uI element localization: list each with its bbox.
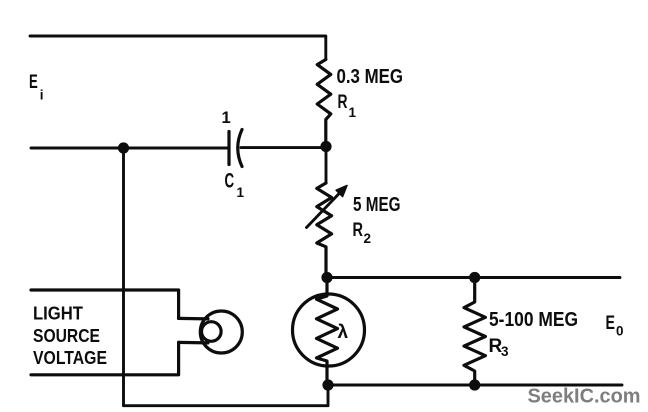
svg-text:0.3 MEG: 0.3 MEG bbox=[337, 66, 404, 88]
wire top rail bbox=[30, 36, 326, 60]
svg-text:SeekIC.com: SeekIC.com bbox=[528, 386, 641, 408]
light source box bottom rail bbox=[31, 342, 179, 374]
lamp upper lead bbox=[179, 317, 208, 321]
node A junction dot bbox=[320, 141, 331, 152]
lamp bulb circle bbox=[200, 311, 242, 353]
wire input rail bbox=[31, 147, 228, 150]
svg-text:i: i bbox=[40, 88, 44, 103]
label R3 bbox=[489, 336, 510, 359]
wire bottom rail bbox=[328, 384, 622, 387]
svg-text:λ: λ bbox=[338, 322, 349, 343]
capacitor C1 bbox=[229, 130, 242, 167]
photocell internal resistor bbox=[317, 278, 338, 386]
lamp lower lead bbox=[179, 341, 208, 345]
svg-text:1: 1 bbox=[349, 105, 357, 120]
node C junction dot bbox=[469, 272, 480, 283]
svg-text:5-100 MEG: 5-100 MEG bbox=[489, 309, 578, 331]
resistor R1 bbox=[317, 60, 331, 142]
svg-text:0: 0 bbox=[616, 324, 624, 339]
photocell lambda circle bbox=[293, 294, 365, 366]
label LIGHT SOURCE VOLTAGE bbox=[33, 304, 107, 369]
svg-text:E: E bbox=[606, 312, 616, 334]
node E junction dot bbox=[469, 379, 480, 390]
svg-text:1: 1 bbox=[222, 109, 231, 127]
svg-text:3: 3 bbox=[501, 344, 509, 359]
svg-text:R: R bbox=[338, 91, 348, 113]
arrow of R2 bbox=[307, 186, 348, 228]
svg-text:E: E bbox=[29, 71, 38, 93]
svg-text:5 MEG: 5 MEG bbox=[353, 194, 401, 216]
label C1 bbox=[225, 170, 245, 201]
svg-text:C: C bbox=[225, 170, 235, 193]
svg-text:1: 1 bbox=[237, 185, 245, 200]
svg-text:SOURCE: SOURCE bbox=[33, 326, 100, 346]
resistor R3 bbox=[464, 278, 485, 386]
node D junction dot bbox=[322, 379, 333, 390]
wire node B to node C rail bbox=[327, 276, 620, 279]
wire capacitor to node A bbox=[241, 146, 326, 149]
label Eo bbox=[606, 312, 624, 339]
light source box top rail bbox=[31, 290, 179, 318]
resistor R2 (variable) bbox=[317, 183, 332, 277]
label R2 bbox=[353, 219, 372, 246]
lamp base circle bbox=[202, 322, 222, 342]
node B junction dot bbox=[321, 272, 332, 283]
svg-text:R: R bbox=[353, 219, 364, 241]
wire left branch from node A down and around to node D bbox=[124, 148, 329, 406]
svg-text:VOLTAGE: VOLTAGE bbox=[33, 348, 107, 368]
wire node A to R2 bbox=[325, 147, 328, 184]
node F junction dot (input rail / left branch) bbox=[118, 142, 129, 153]
svg-text:2: 2 bbox=[364, 231, 372, 246]
label Ei bbox=[29, 71, 44, 103]
label R1 bbox=[338, 91, 357, 120]
svg-text:LIGHT: LIGHT bbox=[33, 304, 83, 324]
